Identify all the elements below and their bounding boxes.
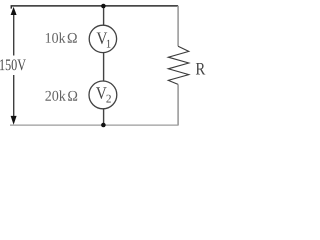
wire bottom [10,124,179,126]
resistor R (zigzag) [168,46,189,84]
label 10k [46,32,66,42]
node A (top junction dot) [101,4,106,9]
voltmeter V2 (circle) [89,81,117,109]
wire right upper (top-right corner down to resistor R) [177,6,179,46]
label V (V1) [97,32,108,44]
source 150V: arrowhead up [11,7,17,15]
wire middle bottom (V2 to node B) [103,109,105,125]
label Ohm (10k) [68,33,77,43]
node B (bottom junction dot) [101,123,106,128]
subscript 1 (V1) [107,40,111,48]
label 20k [45,90,65,100]
label R [196,63,205,75]
label Ohm (20k) [68,91,77,101]
circuit schematic: 150V source arrow, voltmeters V1/V2 with series resistors 10k and 20k, parallel resistor R [0,0,208,135]
source 150V: arrowhead down [11,116,17,125]
wire right lower (resistor R down to bottom-right corner) [177,84,179,125]
label V (V2) [96,87,107,99]
wire top (node A to top-right corner) [11,6,178,9]
wire middle top (node A to voltmeter V1) [103,6,105,25]
label 150V [0,59,26,70]
source 150V: lower arrow shaft [13,75,15,118]
voltmeter V1 (circle) [89,25,116,52]
source 150V: upper arrow shaft [13,13,15,56]
subscript 2 (V2) [106,95,110,103]
wire middle between V1 and V2 [103,53,105,82]
